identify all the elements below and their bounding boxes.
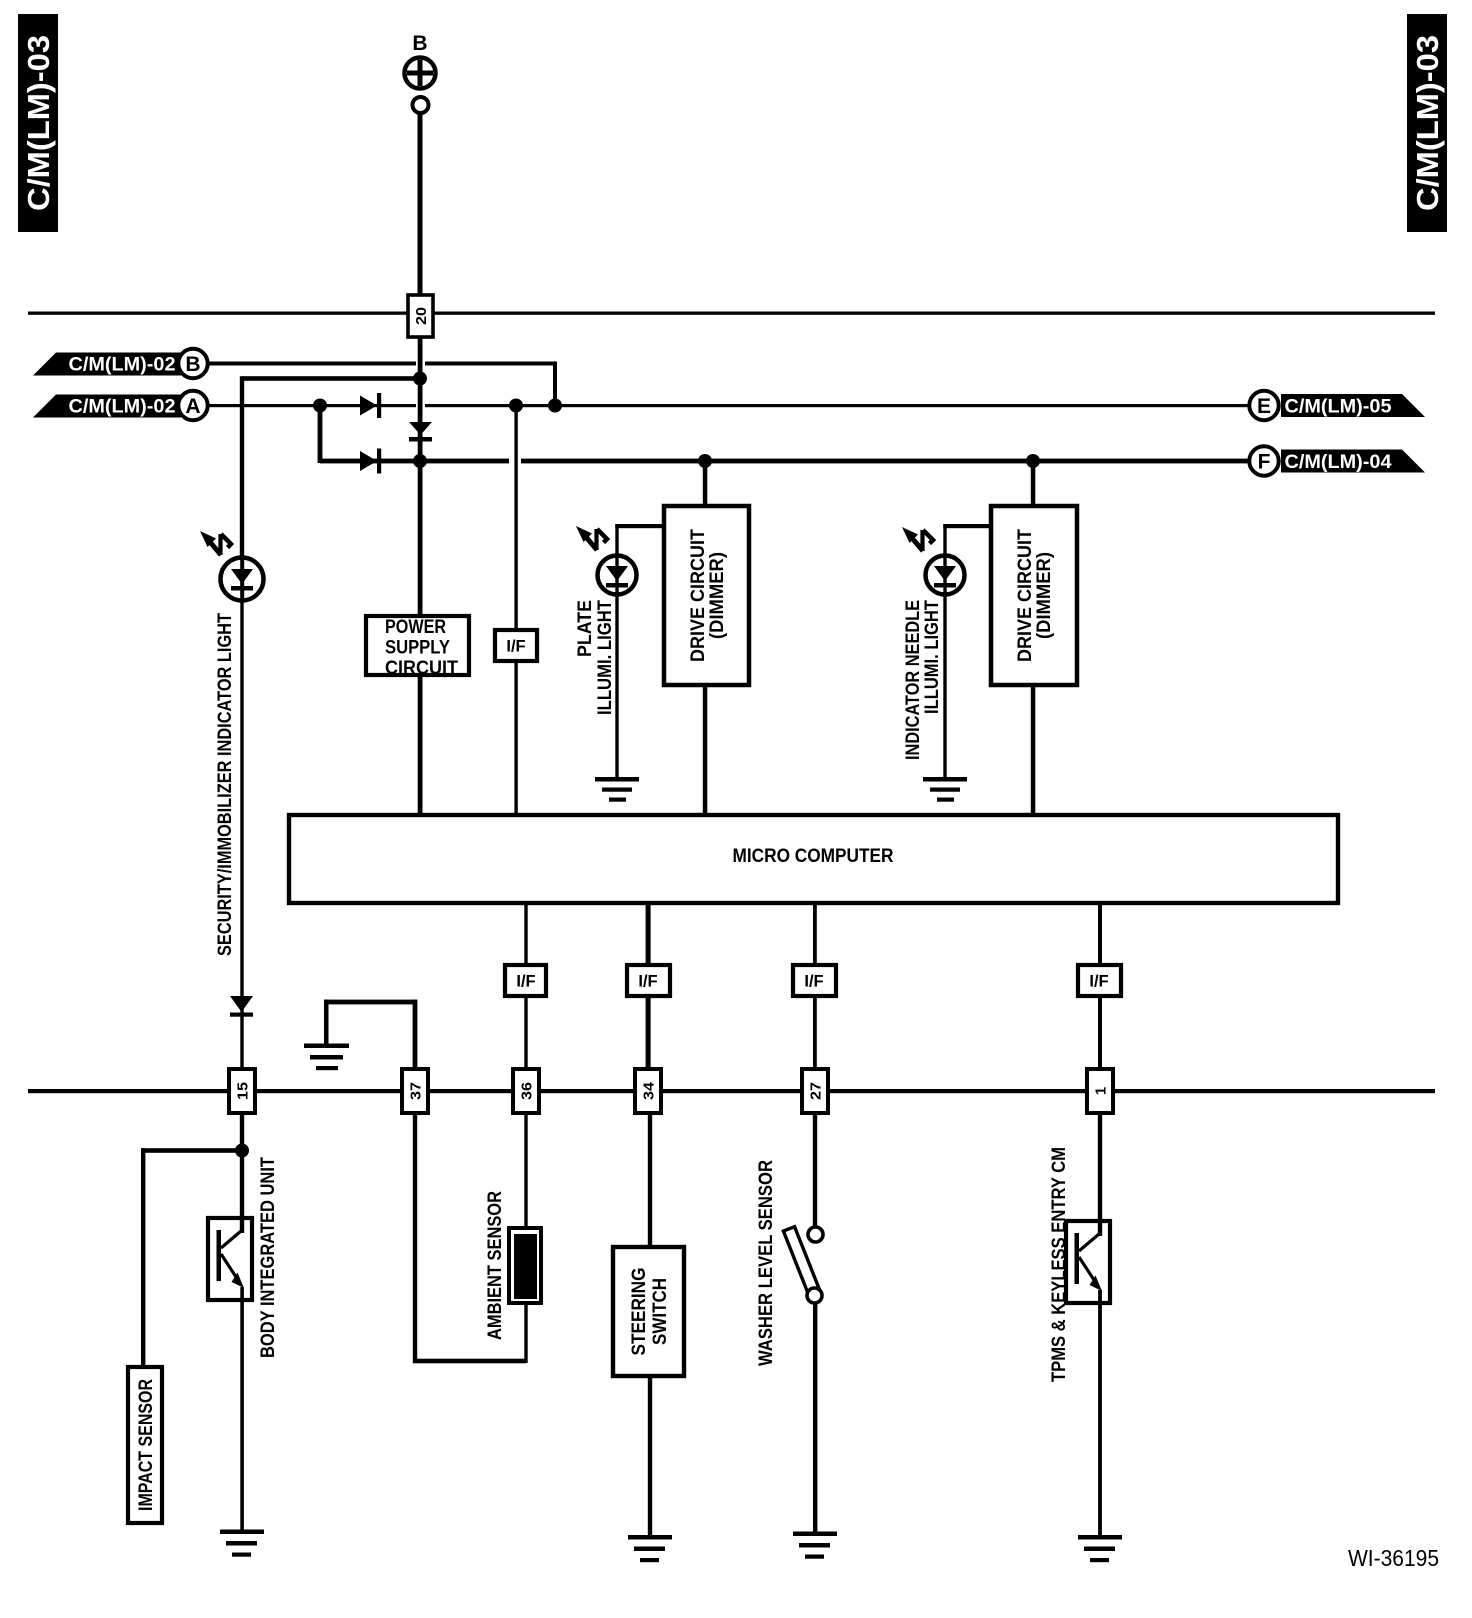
steering switch box: [613, 1247, 684, 1376]
wire plate LED elbow to drive circuit 1: [615, 524, 662, 555]
wire connector 1 to TPMS: [1098, 1113, 1102, 1221]
wire plate LED to ground: [615, 595, 618, 779]
ambient sensor element: [509, 1228, 541, 1303]
svg-text:WASHER LEVEL SENSOR: WASHER LEVEL SENSOR: [755, 1160, 777, 1366]
wire into transistor BIU: [240, 1220, 244, 1233]
ground TPMS: [1078, 1535, 1122, 1562]
wire I/F 1 to connector 36: [524, 996, 527, 1069]
junction dot on main vertical: [413, 372, 427, 386]
svg-text:1: 1: [1093, 1087, 1110, 1095]
wire F line (hops over I/F wire): [320, 459, 1248, 464]
svg-text:C/M(LM)-05: C/M(LM)-05: [1285, 397, 1392, 418]
wire BIU to ground: [240, 1287, 244, 1530]
banner C/M(LM)-02 B: [33, 353, 181, 376]
banner C/M(LM)-04 F: [1281, 450, 1425, 474]
circled B: [178, 349, 207, 378]
junction dot I/F wire on A line: [509, 399, 523, 413]
svg-text:37: 37: [408, 1082, 425, 1100]
svg-text:C/M(LM)-04: C/M(LM)-04: [1285, 452, 1392, 473]
I/F box 2: [627, 965, 670, 996]
wire F line to drive circuit 1: [703, 463, 708, 506]
diode D2 on F line: [360, 449, 381, 474]
svg-text:WI-36195: WI-36195: [1348, 1545, 1439, 1571]
bus line bottom: [28, 1089, 1435, 1093]
svg-text:STEERING: STEERING: [628, 1268, 650, 1356]
svg-text:I/F: I/F: [516, 973, 535, 991]
diode security column: [230, 996, 253, 1017]
I/F box upper: [495, 630, 537, 661]
svg-text:BODY INTEGRATED UNIT: BODY INTEGRATED UNIT: [257, 1157, 279, 1358]
junction dot drive1 on F line: [698, 454, 712, 468]
wire indicator LED to ground: [943, 595, 946, 779]
wire F line to drive circuit 2: [1031, 463, 1036, 506]
indicator needle illumi LED: [926, 553, 965, 597]
svg-text:ILLUMI. LIGHT: ILLUMI. LIGHT: [921, 600, 943, 714]
wire I/F 3 to connector 27: [813, 996, 817, 1069]
svg-text:SECURITY/IMMOBILIZER INDICATOR: SECURITY/IMMOBILIZER INDICATOR LIGHT: [214, 613, 236, 956]
wire connector 27 to washer switch: [813, 1113, 817, 1227]
svg-text:B: B: [412, 32, 427, 55]
connector 37: [402, 1069, 428, 1113]
banner C/M(LM)-05 E: [1281, 394, 1425, 418]
svg-text:POWER: POWER: [385, 617, 446, 638]
plate illumi LED: [598, 553, 637, 597]
wire drive circuit 1 to micro computer: [703, 685, 708, 815]
wire washer switch to ground: [813, 1303, 817, 1532]
wire into transistor TPMS: [1098, 1223, 1102, 1236]
circled A: [178, 391, 207, 420]
label plate illumi light: [574, 600, 616, 715]
wire ambient sensor down to elbow: [524, 1303, 527, 1363]
connector 34: [635, 1069, 661, 1113]
svg-text:27: 27: [808, 1082, 825, 1100]
circled F: [1249, 446, 1278, 475]
wire A line to circled E (hops over main vertical): [209, 404, 1248, 407]
drive circuit 2 box: [991, 506, 1077, 685]
ground plate LED: [595, 777, 639, 802]
svg-text:ILLUMI. LIGHT: ILLUMI. LIGHT: [594, 600, 616, 715]
wire indicator LED elbow to drive circuit 2: [943, 524, 990, 555]
svg-text:C/M(LM)-03: C/M(LM)-03: [1410, 35, 1445, 211]
transistor TPMS & keyless entry CM: [1066, 1221, 1110, 1303]
junction dot impact branch: [235, 1144, 249, 1158]
svg-text:TPMS & KEYLESS ENTRY CM: TPMS & KEYLESS ENTRY CM: [1048, 1147, 1070, 1382]
svg-text:I/F: I/F: [1089, 973, 1108, 991]
wire connector 15 down: [240, 1113, 244, 1220]
page tag C/M(LM)-03 left: [18, 14, 58, 232]
impact sensor box: [128, 1367, 162, 1523]
page tag C/M(LM)-03 right: [1407, 14, 1447, 232]
ground washer: [793, 1532, 837, 1559]
wire from B banner (hops over main vertical): [209, 362, 557, 406]
svg-text:(DIMMER): (DIMMER): [706, 552, 728, 639]
junction dot B-corner on A line: [548, 399, 562, 413]
I/F box 4: [1078, 965, 1121, 996]
svg-text:E: E: [1257, 395, 1271, 418]
svg-text:C/M(LM)-03: C/M(LM)-03: [21, 35, 56, 211]
svg-text:C/M(LM)-02: C/M(LM)-02: [69, 397, 176, 418]
junction dot main vertical on F line: [413, 454, 427, 468]
wire micro to I/F 3: [813, 903, 817, 965]
connector 20: [408, 295, 433, 337]
wire micro to I/F 4: [1098, 903, 1102, 965]
wire security LED to connector 15: [240, 600, 243, 1069]
wire micro to I/F 2: [646, 903, 651, 965]
svg-text:C/M(LM)-02: C/M(LM)-02: [69, 355, 176, 376]
banner C/M(LM)-02 A: [33, 395, 181, 418]
connector 27: [802, 1069, 828, 1113]
drive circuit 1 box: [664, 506, 749, 685]
svg-text:F: F: [1258, 451, 1271, 474]
I/F box 3: [793, 965, 836, 996]
junction dot drive2 on F line: [1026, 454, 1040, 468]
diode D1 on A line: [360, 393, 381, 418]
battery terminal B: [405, 32, 436, 113]
svg-text:MICRO COMPUTER: MICRO COMPUTER: [733, 845, 894, 867]
wire A line to upper I/F and micro computer: [514, 405, 517, 815]
svg-text:I/F: I/F: [506, 638, 525, 656]
svg-text:I/F: I/F: [804, 973, 823, 991]
svg-text:A: A: [185, 395, 200, 418]
ground BIU: [220, 1530, 264, 1557]
wire steering switch to ground: [648, 1376, 652, 1535]
ground indicator LED: [923, 777, 967, 802]
svg-text:15: 15: [235, 1082, 252, 1100]
wire branch from main vertical to security column: [240, 376, 422, 557]
power supply circuit box: [366, 616, 469, 679]
wire drive circuit 2 to micro computer: [1031, 685, 1036, 815]
wire I/F 4 to connector 1: [1098, 996, 1102, 1069]
svg-text:I/F: I/F: [638, 973, 657, 991]
wire battery to connector 20: [418, 113, 423, 295]
label indicator needle illumi light: [902, 600, 943, 760]
svg-text:SUPPLY: SUPPLY: [385, 638, 450, 659]
svg-text:34: 34: [641, 1081, 658, 1100]
lightning arrow indicator LED: [902, 527, 933, 551]
circled E: [1249, 391, 1278, 420]
svg-text:(DIMMER): (DIMMER): [1033, 552, 1055, 639]
wire connector 37 down with elbow: [413, 1113, 526, 1363]
transistor body integrated unit: [208, 1218, 252, 1300]
svg-text:36: 36: [519, 1082, 536, 1100]
wire power supply circuit to micro computer: [418, 677, 423, 815]
svg-text:IMPACT SENSOR: IMPACT SENSOR: [135, 1379, 157, 1511]
svg-text:PLATE: PLATE: [574, 600, 596, 657]
security/immobilizer LED: [221, 557, 264, 601]
wire micro to I/F 1: [524, 903, 527, 965]
connector 36: [513, 1069, 539, 1113]
wire branch to impact sensor: [141, 1148, 242, 1367]
ground symbol near connector 37: [304, 1044, 349, 1071]
wire connector 36 to ambient sensor: [524, 1113, 527, 1228]
svg-text:CIRCUIT: CIRCUIT: [385, 658, 458, 679]
svg-text:B: B: [185, 353, 200, 376]
wire TPMS to ground: [1098, 1290, 1102, 1535]
ground elbow to connector 37: [324, 1000, 417, 1070]
wire A-line drop to F line: [318, 405, 323, 463]
junction dot A line left: [313, 399, 327, 413]
I/F box 1: [505, 965, 546, 996]
washer level sensor switch: [783, 1227, 823, 1303]
ground steering switch: [628, 1535, 672, 1562]
connector 15: [229, 1069, 255, 1113]
lightning arrow security LED: [200, 531, 231, 555]
main vertical wire (connector 20 to power supply circuit): [418, 337, 423, 614]
svg-text:SWITCH: SWITCH: [649, 1278, 671, 1345]
lightning arrow plate LED: [576, 526, 607, 550]
diode D3 on main vertical: [409, 422, 432, 442]
bus line top: [28, 312, 1435, 315]
micro computer box: [289, 815, 1338, 903]
wire connector 34 to steering switch: [648, 1113, 652, 1247]
connector 1: [1087, 1069, 1113, 1113]
svg-text:AMBIENT SENSOR: AMBIENT SENSOR: [484, 1191, 506, 1340]
wire I/F 2 to connector 34: [646, 996, 651, 1069]
svg-text:20: 20: [413, 307, 430, 325]
